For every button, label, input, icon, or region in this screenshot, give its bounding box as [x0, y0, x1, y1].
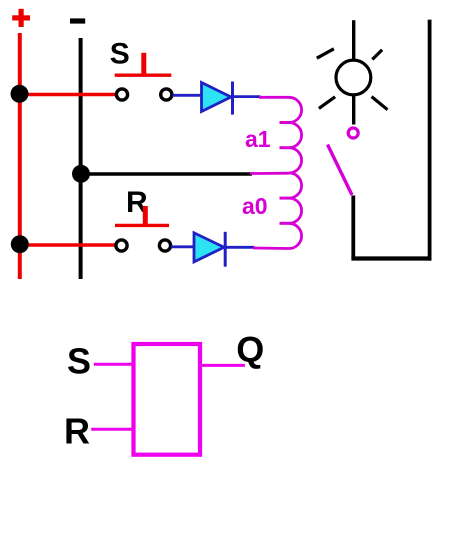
relay coil a0 (lower half): [280, 173, 302, 249]
terminal : R contact left: [116, 240, 127, 251]
svg-text:a0: a0: [242, 193, 268, 219]
label R (latch input): [64, 411, 90, 452]
label Q (latch output): [236, 329, 264, 370]
wire : red horizontal from + rail to R terminal: [20, 243, 115, 246]
svg-text:S: S: [67, 341, 91, 382]
wire : red + rail vertical: [18, 33, 22, 279]
label a1: [245, 126, 271, 152]
terminal : S contact right: [161, 89, 172, 100]
lamp L1: [317, 49, 388, 110]
svg-text:a1: a1: [245, 126, 271, 152]
wire : magenta into coil a1 top: [259, 96, 289, 99]
label a0: [242, 193, 268, 219]
wire : black - rail vertical: [79, 38, 83, 279]
wire : magenta into coil a0 bottom: [253, 247, 289, 250]
+ supply symbol: [12, 9, 30, 27]
node : junction + rail / S row: [11, 85, 29, 103]
wire : magenta center tap into coil: [250, 172, 289, 175]
- supply symbol: [70, 18, 85, 23]
wire : blue diode D1 to coil: [233, 95, 261, 98]
diode D1: [202, 82, 233, 115]
SR latch box U1: [134, 344, 201, 455]
label S (set pushbutton): [110, 37, 130, 70]
diode D2: [194, 232, 225, 267]
wire : blue S terminal to diode D1: [173, 94, 203, 97]
terminal : R contact right: [159, 240, 170, 251]
node : junction - rail / center tap: [72, 165, 90, 183]
wire : black center tap from - rail to coil: [81, 172, 252, 175]
pushbutton R actuator: [115, 206, 169, 225]
wire : lamp to contact terminal: [352, 95, 355, 125]
wire : blue diode D2 to coil bottom: [225, 246, 254, 249]
relay coil a1 (upper half): [280, 97, 302, 173]
svg-text:R: R: [64, 411, 90, 452]
wire : latch R input lead: [91, 428, 133, 431]
wire : latch Q output lead: [200, 364, 245, 367]
node : junction + rail / R row: [11, 235, 29, 253]
pushbutton S actuator: [115, 53, 172, 75]
label R (reset pushbutton): [126, 186, 148, 219]
wire : black return U path: [351, 20, 431, 261]
wire : red horizontal from + rail to S terminal: [20, 93, 116, 96]
terminal : S contact left: [116, 89, 127, 100]
wire : latch S input lead: [94, 363, 134, 366]
wire : lamp top feed: [352, 20, 355, 60]
terminal : relay contact (magenta): [348, 128, 358, 138]
relay contact blade (open switch): [328, 145, 353, 196]
wire : blue R terminal to diode D2: [171, 245, 195, 248]
svg-text:S: S: [110, 37, 130, 70]
label S (latch input): [67, 341, 91, 382]
